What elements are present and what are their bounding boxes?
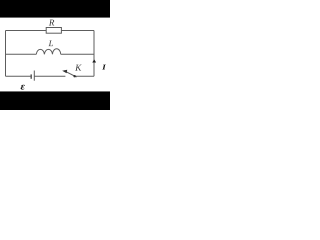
wire: right vertical <box>93 31 95 77</box>
background <box>0 0 110 110</box>
wire: L branch left <box>6 53 37 55</box>
wire: left vertical <box>5 31 7 77</box>
wire: switch to right corner <box>75 75 94 77</box>
label epsilon (emf) <box>21 85 25 90</box>
label R <box>49 20 54 26</box>
wire: bottom left to battery <box>6 75 32 77</box>
wire: top branch left of R <box>6 30 47 32</box>
resistor R body <box>46 28 61 34</box>
battery short plate <box>30 74 32 78</box>
bottom black band <box>0 92 110 110</box>
bottom black band fade edge <box>0 90 110 93</box>
inductor L coil <box>36 49 60 55</box>
switch pivot dot <box>73 75 75 77</box>
wire: L branch right <box>61 53 94 55</box>
top black band <box>0 0 110 17</box>
switch lever arrowhead <box>62 70 67 74</box>
current arrow on right wire <box>92 59 96 62</box>
wire: top branch right of R <box>61 30 94 32</box>
label L <box>48 40 52 46</box>
wire: battery to switch <box>34 75 65 77</box>
switch K lever <box>64 71 77 77</box>
label I <box>102 65 106 70</box>
battery long plate <box>33 71 35 81</box>
label K <box>75 65 82 71</box>
